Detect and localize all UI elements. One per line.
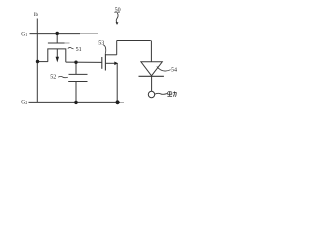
svg-text:G2: G2 <box>21 99 27 105</box>
svg-text:53: 53 <box>98 41 104 47</box>
svg-text:50: 50 <box>115 8 121 14</box>
svg-text:Ib: Ib <box>34 13 39 18</box>
svg-text:52: 52 <box>50 75 56 81</box>
svg-text:51: 51 <box>76 47 82 53</box>
svg-text:G1: G1 <box>21 32 27 38</box>
svg-text:54: 54 <box>171 67 177 73</box>
